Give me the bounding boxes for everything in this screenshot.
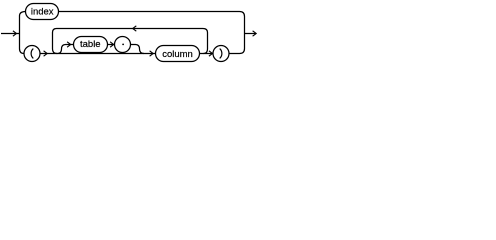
wire dot down to main [131,45,145,54]
label close-paren [220,49,222,59]
wire bottom main line [40,53,156,55]
svg-text:index: index [31,7,54,18]
wire loop left vertical [53,29,58,54]
arrow after open-paren [44,51,48,56]
terminal circle open-paren [24,46,40,62]
wire right branch vertical [244,17,246,49]
wire table to dot [108,44,115,46]
wire entry [1,33,20,35]
wire exit [245,33,256,35]
arrow before column [150,51,154,56]
arrow loop leftward [133,26,137,31]
svg-text:table: table [80,39,101,50]
arrow before table [67,42,71,47]
arrow entry [13,31,17,36]
wire left branch vertical [20,12,26,54]
terminal circle close-paren [213,46,229,62]
wire loop right vertical and top rail [57,29,208,54]
label open-paren [31,49,33,59]
label dot [122,44,124,46]
arrow before dot [110,42,114,47]
terminal pill index [26,4,59,20]
wire close-paren to exit [229,49,245,54]
wire column to close-paren [200,53,214,55]
wire top rail [59,12,245,17]
terminal circle dot [115,37,131,53]
svg-text:column: column [162,49,193,60]
terminal pill column [156,46,200,62]
terminal pill table [74,37,108,53]
wire branch up to table [58,45,74,54]
arrow before close-paren [209,51,213,56]
arrow exit [253,31,257,36]
